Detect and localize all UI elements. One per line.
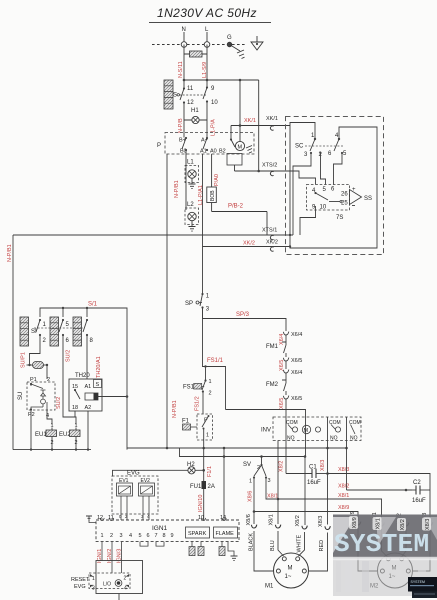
lamp L1: [185, 150, 199, 183]
svg-text:3: 3: [268, 478, 271, 484]
ground below L2: [189, 221, 196, 231]
connector X6/5 upper: [279, 358, 302, 371]
svg-text:SU: SU: [18, 392, 24, 400]
svg-text:6: 6: [147, 533, 150, 539]
svg-text:12: 12: [187, 100, 194, 106]
wire FS1 to F1: [202, 392, 204, 414]
spark electrodes: [189, 542, 204, 556]
svg-text:3: 3: [92, 586, 95, 592]
valve EV2: [139, 478, 155, 496]
wire XK/2 down to SP: [202, 154, 204, 293]
connector block SI-c: [73, 317, 82, 346]
svg-text:C2: C2: [413, 480, 421, 486]
wire SU P2 down: [30, 410, 32, 450]
wire SI-8 to TH20: [86, 335, 88, 379]
wire SV1 black feed: [253, 478, 256, 524]
svg-text:COM: COM: [329, 420, 341, 426]
box below M: [227, 154, 242, 172]
valve EV1: [117, 478, 133, 496]
svg-text:NO: NO: [330, 436, 338, 442]
svg-text:XK/1: XK/1: [266, 116, 278, 122]
controller box IGN1: [96, 515, 239, 542]
wire SC pin5 to 7S pin6: [334, 154, 343, 185]
svg-text:12: 12: [97, 515, 103, 521]
svg-text:11: 11: [108, 515, 114, 521]
svg-text:X6/5: X6/5: [291, 358, 302, 364]
surge unit SU: [18, 377, 55, 419]
svg-text:4: 4: [129, 533, 132, 539]
svg-text:X8/3: X8/3: [338, 467, 349, 473]
lamp H1: [184, 108, 207, 124]
wire N vertical top: [183, 45, 185, 89]
timer box 7S: [307, 185, 350, 222]
svg-text:EVG: EVG: [74, 584, 86, 590]
svg-text:S: S: [96, 382, 100, 388]
wire X8/3 line: [328, 467, 431, 522]
svg-text:26: 26: [341, 192, 348, 198]
svg-text:FLAME: FLAME: [216, 531, 235, 537]
flame sensor: [219, 542, 238, 561]
svg-text:IGN/10: IGN/10: [198, 495, 204, 512]
svg-text:SU/2: SU/2: [66, 350, 72, 362]
svg-text:4: 4: [124, 586, 127, 592]
flame module FLAME: [214, 527, 238, 538]
flame switch F1: [182, 414, 213, 440]
svg-text:SV: SV: [243, 462, 251, 468]
svg-text:B2: B2: [219, 149, 226, 155]
wire TH20 18 down: [74, 411, 76, 417]
wire SU 4 to EU1: [47, 410, 52, 425]
connector X6/4 upper: [279, 332, 302, 345]
svg-text:XTS/1: XTS/1: [262, 228, 277, 234]
svg-text:FM2: FM2: [266, 382, 279, 388]
svg-text:L2: L2: [187, 202, 194, 208]
enclosure dashed box TS: [286, 117, 384, 255]
connector X8/6 M1: [246, 514, 257, 528]
svg-text:XK/2: XK/2: [243, 241, 255, 247]
svg-text:XTS/2: XTS/2: [262, 163, 277, 169]
wire from G bus down to XTS/2: [258, 80, 260, 171]
svg-text:X8/1: X8/1: [376, 518, 382, 529]
wires IGN 1-3: [102, 542, 122, 573]
thermal contact FM1: [266, 338, 286, 358]
pressure switch FS1: [183, 379, 212, 397]
wire B1 return: [166, 154, 168, 448]
terminal N: [181, 27, 187, 47]
svg-text:10: 10: [320, 205, 327, 211]
terminal G: [227, 35, 232, 47]
svg-text:SPARK: SPARK: [188, 531, 207, 537]
svg-text:X8/1: X8/1: [267, 494, 278, 500]
svg-text:TH20: TH20: [75, 373, 90, 379]
svg-text:1N230V AC 50Hz: 1N230V AC 50Hz: [157, 6, 257, 20]
svg-text:RED: RED: [319, 540, 325, 552]
svg-text:X8/2: X8/2: [279, 461, 285, 472]
svg-text:10: 10: [211, 100, 218, 106]
svg-text:X8/1: X8/1: [338, 493, 349, 499]
svg-text:1: 1: [92, 576, 95, 582]
svg-text:1: 1: [209, 379, 212, 385]
wire SC pin3 to XTS/1: [293, 154, 311, 235]
switch SC: [295, 133, 347, 158]
svg-text:NO: NO: [350, 436, 358, 442]
watermark overlay: [333, 515, 437, 597]
svg-text:10: 10: [198, 515, 204, 521]
supply dashed line: [152, 44, 247, 46]
svg-text:L1-P/A: L1-P/A: [211, 119, 217, 136]
connector X8/1 M1: [269, 514, 281, 528]
svg-text:SU/P1: SU/P1: [21, 352, 27, 368]
relay box P: [157, 133, 254, 155]
svg-text:1~: 1~: [285, 574, 292, 580]
svg-text:X8/2: X8/2: [400, 519, 406, 530]
svg-text:X6/5: X6/5: [279, 360, 285, 371]
svg-text:M: M: [238, 145, 243, 151]
wire XTS/1 bus: [13, 228, 293, 240]
svg-text:N-S/11: N-S/11: [178, 61, 184, 78]
wire XTS/2 into 7S: [290, 171, 316, 185]
svg-text:X8/1: X8/1: [269, 514, 275, 525]
svg-text:L/O: L/O: [103, 582, 111, 588]
filter PR: [27, 362, 49, 380]
svg-text:SP: SP: [185, 301, 193, 307]
svg-text:FS1/1: FS1/1: [207, 358, 224, 364]
svg-text:1: 1: [249, 479, 252, 485]
svg-text:25: 25: [341, 201, 348, 207]
svg-text:A1: A1: [200, 149, 207, 155]
svg-text:X6/5: X6/5: [279, 398, 285, 409]
wire SC pin2 to 7S pin5: [321, 154, 326, 185]
heater EU1: [35, 423, 57, 450]
wire FU1 to IGN1: [203, 489, 205, 520]
connector block SI-b: [50, 317, 59, 346]
wire TH20 A2 down: [87, 411, 89, 450]
svg-text:N-P/B1: N-P/B1: [172, 400, 178, 418]
wire L vertical mid: [206, 102, 208, 138]
inverter box INV: [261, 417, 361, 442]
wire SV3 to X8/1: [266, 478, 278, 500]
svg-text:F1: F1: [182, 419, 190, 425]
svg-text:BLU: BLU: [270, 540, 276, 551]
wire FS1 to INV: [226, 410, 306, 457]
svg-text:P/B-2: P/B-2: [228, 204, 244, 210]
wire X8/1 line: [278, 493, 382, 522]
svg-text:X8/3: X8/3: [318, 516, 324, 527]
connector X6/5 lower: [279, 396, 302, 409]
wire from G bus down to M: [239, 80, 241, 142]
svg-text:SS: SS: [364, 196, 372, 202]
svg-text:2: 2: [209, 391, 212, 397]
svg-text:X8/3: X8/3: [425, 519, 431, 530]
capacitor C1: [286, 460, 328, 486]
svg-text:G: G: [227, 35, 232, 41]
svg-text:X8/2: X8/2: [338, 484, 349, 490]
svg-text:2: 2: [110, 533, 113, 539]
svg-text:1: 1: [101, 533, 104, 539]
fuse FU1 2A: [190, 481, 215, 490]
svg-text:S/1: S/1: [88, 302, 98, 308]
capacitor C2: [412, 480, 430, 504]
spark module SPARK: [186, 527, 210, 538]
wire FM chain to INV: [285, 402, 287, 474]
svg-text:7: 7: [155, 533, 158, 539]
wire P/B-2: [212, 204, 267, 236]
svg-text:X8/6: X8/6: [248, 491, 254, 502]
svg-text:14: 14: [220, 515, 226, 521]
buzzer SS: [341, 187, 372, 207]
fuse F between N and L: [184, 51, 207, 57]
heater EU2: [59, 423, 80, 450]
svg-text:SP/3: SP/3: [236, 312, 250, 318]
svg-text:X6/4: X6/4: [291, 370, 302, 376]
svg-text:P/A0: P/A0: [214, 174, 220, 186]
reset box RESET EVG: [71, 561, 143, 600]
switch S1 contacts 11-12 / 9-10: [173, 86, 218, 106]
wire bus line2: [180, 448, 306, 458]
wire X8/9 line: [254, 505, 358, 521]
thermostat TH20: [69, 373, 102, 411]
connector X6/4 lower: [283, 364, 302, 377]
svg-text:EU1: EU1: [35, 432, 47, 438]
wire SP3 node to FS1: [203, 308, 226, 410]
svg-text:BOB: BOB: [210, 190, 216, 201]
wire TH20 S to right vertical: [98, 395, 128, 398]
wire branch G bus at y 80: [183, 79, 259, 82]
wire INV to X8/2 line: [346, 417, 348, 490]
lamp L2: [185, 168, 199, 225]
svg-text:N-P/B: N-P/B: [178, 118, 184, 133]
svg-text:A2: A2: [85, 405, 92, 411]
svg-text:P: P: [157, 143, 161, 149]
wire N into P box: [183, 120, 185, 138]
wires EVG pins to IGN1: [119, 496, 150, 520]
svg-text:N-P/B1: N-P/B1: [174, 180, 180, 198]
wire SI-6 down: [63, 335, 76, 425]
wire X8/2 line: [338, 484, 412, 492]
svg-text:A1: A1: [85, 384, 92, 390]
svg-text:A0: A0: [210, 149, 217, 155]
connector X8/2 M1: [295, 515, 307, 529]
svg-text:L1-P/A1: L1-P/A1: [198, 185, 204, 205]
svg-text:1: 1: [206, 433, 209, 439]
svg-text:M: M: [288, 566, 293, 572]
svg-text:IGN1: IGN1: [152, 525, 168, 532]
svg-text:3: 3: [120, 533, 123, 539]
earth lead from G: [230, 45, 245, 59]
ground below L1: [189, 178, 196, 188]
svg-text:7S: 7S: [336, 215, 343, 221]
wire SI-2 to PR: [30, 335, 41, 365]
svg-text:NO: NO: [287, 436, 295, 442]
svg-text:8: 8: [163, 533, 166, 539]
svg-text:2A: 2A: [208, 484, 215, 490]
wire SP/3: [203, 308, 287, 331]
svg-text:SYSTEM: SYSTEM: [334, 529, 429, 559]
svg-text:L1-S/9: L1-S/9: [202, 62, 208, 78]
svg-text:X8/6: X8/6: [246, 514, 252, 525]
connector block SI-a: [20, 317, 29, 346]
svg-text:FU1: FU1: [190, 484, 202, 490]
wire N vertical mid: [183, 103, 185, 121]
gas valve box EVG: [112, 471, 158, 515]
lamp H2: [187, 462, 195, 474]
wire IGN 14: [223, 448, 225, 520]
svg-text:X8/9: X8/9: [352, 517, 358, 528]
svg-text:X8/2: X8/2: [295, 515, 301, 526]
svg-text:XK/2: XK/2: [266, 240, 278, 246]
logo box: [408, 577, 437, 598]
svg-text:XK/1: XK/1: [244, 118, 256, 124]
terminal L: [204, 27, 210, 47]
svg-text:S: S: [173, 93, 177, 99]
svg-text:L1: L1: [187, 160, 194, 166]
wire bottom collector: [13, 448, 91, 450]
svg-text:X6/4: X6/4: [291, 332, 302, 338]
svg-text:M1: M1: [265, 584, 274, 590]
wire S/1 bus: [40, 302, 127, 450]
wire bus line1: [127, 447, 348, 450]
svg-text:EVG: EVG: [127, 471, 140, 477]
connector labels M2 above overlay: [349, 516, 431, 531]
svg-text:4: 4: [46, 413, 49, 419]
svg-text:N-P/B1: N-P/B1: [7, 244, 13, 262]
wire BLU drop: [277, 441, 280, 525]
svg-text:SU/2: SU/2: [56, 397, 62, 409]
svg-text:SYSTEM: SYSTEM: [411, 580, 425, 584]
jumpers IGN pins 5-8: [140, 542, 164, 547]
PE symbol: [251, 36, 263, 50]
thermal contact FM2: [266, 376, 286, 396]
motor M2 under watermark: [350, 511, 433, 589]
wire F1 down: [203, 440, 205, 481]
svg-text:FM1: FM1: [266, 344, 279, 350]
svg-text:F1/1: F1/1: [207, 466, 213, 477]
svg-text:SC: SC: [295, 144, 304, 150]
svg-text:H1: H1: [191, 108, 199, 114]
svg-text:X6/5: X6/5: [291, 396, 302, 402]
svg-text:X8/9: X8/9: [338, 505, 349, 511]
svg-text:FS1: FS1: [183, 385, 195, 391]
svg-text:INV: INV: [261, 428, 271, 434]
wire inner left loop: [290, 123, 377, 249]
wire XTS/2: [235, 163, 291, 176]
wire L vertical top: [206, 45, 208, 88]
connector X8/3 M1: [318, 516, 330, 530]
svg-text:FS1/2: FS1/2: [195, 396, 201, 411]
wire RED drop: [326, 417, 329, 525]
svg-text:11: 11: [187, 86, 194, 92]
wire left return vertical: [12, 235, 14, 450]
wire H2 feed: [113, 469, 206, 476]
svg-text:18: 18: [72, 405, 78, 411]
svg-text:COM: COM: [286, 420, 298, 426]
switch SV: [243, 457, 271, 485]
wires into motor M1: [254, 531, 328, 571]
svg-text:X6/4: X6/4: [279, 334, 285, 345]
wire XK/2: [203, 240, 292, 252]
svg-text:16uF: 16uF: [307, 480, 321, 486]
svg-text:M: M: [304, 428, 309, 434]
coil BOB: [207, 154, 220, 212]
wire XK/1: [231, 116, 290, 139]
connector block S: [164, 80, 173, 109]
switch SI contacts: [31, 319, 94, 344]
motor M1: [265, 553, 309, 590]
svg-text:X8/3: X8/3: [320, 460, 326, 471]
wire 7S pin9 out: [300, 206, 316, 235]
ground IGN1 left: [86, 516, 96, 523]
motor M inside P: [230, 138, 252, 153]
svg-text:5: 5: [139, 533, 142, 539]
switch SP: [185, 293, 210, 313]
svg-text:16uF: 16uF: [412, 498, 426, 504]
svg-text:TH20/A1: TH20/A1: [96, 356, 102, 378]
svg-text:9: 9: [171, 533, 174, 539]
svg-text:WHITE: WHITE: [297, 534, 303, 552]
svg-text:RESET: RESET: [71, 577, 90, 583]
wire WHITE drop: [304, 457, 306, 526]
title 1N230V AC 50Hz: [149, 6, 271, 23]
